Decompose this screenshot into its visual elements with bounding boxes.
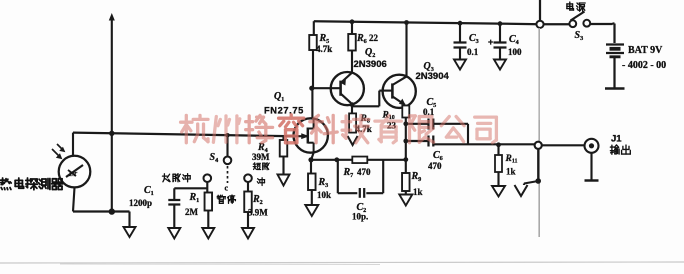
svg-text:470: 470 [357,167,371,177]
svg-text:1200p: 1200p [129,198,152,208]
svg-text:c: c [225,184,229,193]
svg-text:Q2: Q2 [365,47,375,59]
svg-text:100: 100 [508,47,522,57]
svg-text:C4: C4 [509,34,519,46]
svg-text:39M: 39M [252,152,270,162]
svg-text:S4: S4 [210,152,219,164]
svg-text:1k: 1k [413,187,423,197]
svg-text:J1: J1 [611,134,622,145]
svg-text:R2: R2 [252,194,263,206]
svg-text:C1: C1 [144,185,154,197]
svg-text:R6: R6 [356,33,367,45]
svg-text:R7: R7 [343,167,354,179]
svg-text:C3: C3 [469,33,479,45]
svg-text:2M: 2M [185,207,199,217]
svg-text:470: 470 [428,161,442,171]
svg-text:2N3906: 2N3906 [354,59,387,70]
svg-text:- 4002 - 00: - 4002 - 00 [622,60,666,71]
svg-text:FN27.75: FN27.75 [264,106,304,116]
svg-text:R1: R1 [189,192,200,204]
svg-text:ZT: ZT [68,171,78,178]
svg-text:Q1: Q1 [274,91,284,103]
svg-text:10p.: 10p. [352,212,368,222]
svg-text:R9: R9 [411,171,422,183]
svg-text:+: + [488,37,493,47]
svg-text:R11: R11 [505,154,518,165]
svg-text:BAT 9V: BAT 9V [628,45,663,56]
svg-text:R3: R3 [318,177,329,189]
svg-text:S3: S3 [575,30,584,42]
svg-text:22: 22 [369,33,379,43]
svg-text:4.7k: 4.7k [316,44,332,54]
svg-text:10k: 10k [317,190,331,200]
svg-text:3.9M: 3.9M [248,208,268,218]
svg-text:1k: 1k [506,167,516,177]
svg-text:0.1: 0.1 [467,47,479,57]
svg-text:2N3904: 2N3904 [416,71,450,82]
